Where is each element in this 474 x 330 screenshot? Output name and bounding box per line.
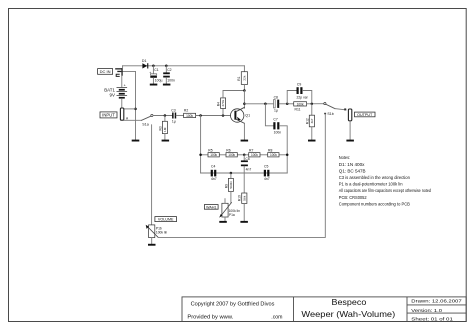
switch S1a — [142, 114, 153, 126]
node junction R1/R4 — [243, 89, 246, 92]
resistor R11 100k — [294, 102, 307, 112]
WAH label box — [204, 205, 218, 210]
svg-text:100k lin: 100k lin — [156, 231, 168, 235]
svg-text:PCB: CRS0052: PCB: CRS0052 — [339, 195, 367, 200]
node junction C1/rail — [152, 65, 155, 68]
wire C8 to R11 — [279, 103, 293, 105]
svg-text:Version: 1.0: Version: 1.0 — [411, 308, 442, 313]
svg-text:R6: R6 — [226, 148, 230, 152]
wire S1a to C3 — [153, 115, 172, 117]
svg-text:WAH1: WAH1 — [206, 205, 216, 209]
ground under output jack — [346, 140, 354, 142]
svg-text:.com: .com — [271, 315, 282, 321]
svg-text:R12: R12 — [305, 118, 309, 124]
wire top rail V+ — [123, 65, 245, 67]
capacitor C4 4n7 — [211, 165, 217, 181]
svg-text:R3: R3 — [158, 126, 162, 130]
ground under R12 — [308, 140, 316, 142]
wire volume wiper to S1b lower contact — [158, 114, 325, 237]
svg-text:DC IN: DC IN — [100, 69, 111, 74]
svg-text:D1: D1 — [142, 59, 147, 63]
capacitor C5 4n7 — [264, 165, 270, 181]
node junction row right — [286, 154, 289, 157]
svg-text:VOLUME: VOLUME — [158, 218, 174, 222]
ground under R10 — [240, 221, 248, 223]
node junction row left — [199, 154, 202, 157]
VOLUME label box — [155, 217, 177, 222]
resistor R1 vertical from rail — [237, 66, 247, 91]
svg-text:Weeper (Wah-Volume): Weeper (Wah-Volume) — [301, 310, 395, 319]
wire C3 to R2 — [176, 115, 183, 117]
node junction R12 top — [311, 103, 314, 106]
svg-text:Q1: BC 547B: Q1: BC 547B — [339, 169, 366, 174]
capacitor C9 22p bypass — [287, 83, 312, 104]
connector X3 OUTPUT label — [355, 112, 376, 117]
resistor R2 100k — [184, 109, 196, 118]
svg-text:Bespeco: Bespeco — [332, 298, 367, 307]
svg-text:R10: R10 — [238, 195, 242, 201]
wire R2 to base — [196, 115, 231, 117]
resistor R6 100k — [226, 148, 237, 157]
node junction R3 top — [164, 114, 167, 117]
svg-text:Q1: Q1 — [245, 114, 250, 118]
svg-text:4n7: 4n7 — [264, 177, 270, 181]
svg-text:P1a: P1a — [229, 213, 235, 217]
svg-text:470k: 470k — [221, 99, 225, 106]
capacitor C8 1u electrolytic — [274, 96, 280, 113]
ground under R3 — [162, 140, 170, 142]
svg-text:C1: C1 — [154, 68, 158, 72]
svg-text:R1: R1 — [237, 76, 241, 80]
node junction row middle — [243, 154, 246, 157]
wire input sleeve to ground line — [124, 108, 136, 110]
wire output jack to ground — [349, 121, 351, 140]
connector X1 INPUT label — [100, 112, 117, 118]
resistor R4 vertical — [217, 91, 245, 116]
switch S1b lower contact — [324, 113, 326, 115]
svg-text:C8: C8 — [274, 96, 278, 100]
svg-text:100k: 100k — [210, 153, 217, 157]
svg-text:R5: R5 — [208, 148, 212, 152]
svg-text:Sheet: 01 of 01: Sheet: 01 of 01 — [411, 316, 453, 321]
node junction collector — [243, 103, 246, 106]
wire collector node right — [244, 103, 273, 105]
resistor R10 vertical — [238, 193, 247, 221]
wire resistor row — [201, 154, 288, 156]
svg-text:C3: C3 — [171, 108, 175, 112]
svg-text:INPUT: INPUT — [102, 113, 115, 118]
connector X2 DC jack symbol — [115, 66, 123, 77]
node junction base branch down — [199, 114, 202, 117]
svg-text:100µ: 100µ — [155, 79, 163, 83]
svg-text:100n: 100n — [167, 79, 175, 83]
svg-text:C5: C5 — [264, 165, 268, 169]
svg-text:4n7: 4n7 — [246, 168, 252, 172]
svg-text:1M: 1M — [163, 127, 167, 132]
notes text — [339, 155, 432, 206]
svg-text:C7: C7 — [273, 118, 277, 122]
wire ground line down — [135, 109, 137, 140]
capacitor C6 4n7 vertical — [241, 155, 251, 193]
switch S1b — [324, 103, 346, 116]
wire collector vertical — [243, 91, 245, 109]
svg-text:4k7: 4k7 — [310, 118, 314, 123]
svg-text:22k: 22k — [243, 75, 247, 80]
svg-text:Drawn: 12.06.2007: Drawn: 12.06.2007 — [411, 298, 462, 303]
wire C7 branch left/down — [265, 104, 273, 126]
wire C7 right down to row — [279, 126, 287, 173]
svg-text:C2: C2 — [167, 68, 171, 72]
ground under volume pot — [148, 244, 156, 246]
svg-text:1µ: 1µ — [274, 109, 278, 113]
node junction R9 top — [230, 172, 233, 175]
svg-text:Provided by www.: Provided by www. — [187, 315, 233, 321]
connector X2 DC IN label — [98, 69, 113, 75]
wire base branch down to row — [200, 116, 202, 174]
svg-text:All capacitors are film-capaci: All capacitors are film-capacitors excep… — [339, 188, 432, 193]
node junction C9 left / C8 — [286, 103, 289, 106]
svg-text:C3 is assembled in the wrong d: C3 is assembled in the wrong direction — [339, 175, 411, 180]
svg-text:+: + — [124, 83, 126, 87]
ground under Q1 emitter — [241, 140, 249, 142]
resistor R12 vertical — [305, 104, 314, 140]
potentiometer WAH1 P1a — [219, 199, 240, 221]
ground under C2 — [163, 84, 171, 86]
svg-text:S1b: S1b — [327, 112, 333, 116]
svg-text:OUTPUT: OUTPUT — [357, 113, 373, 117]
svg-text:R11: R11 — [295, 107, 301, 111]
svg-text:100k: 100k — [270, 153, 277, 157]
ground under left rail — [132, 140, 140, 142]
svg-text:R2: R2 — [184, 109, 188, 113]
svg-text:9V: 9V — [110, 93, 115, 98]
wire node A from input tip — [124, 119, 142, 121]
svg-text:P1 is a dual-potentiometer 100: P1 is a dual-potentiometer 100k lin — [339, 182, 403, 187]
svg-text:R8: R8 — [268, 148, 272, 152]
battery BAT1 9V — [104, 76, 126, 108]
wire bottom rail — [201, 172, 288, 174]
connector X1 input jack — [120, 108, 123, 120]
resistor R5 100k — [208, 148, 219, 157]
svg-text:560R: 560R — [229, 180, 233, 188]
svg-text:Component numbers according to: Component numbers according to PCB — [339, 201, 410, 206]
svg-text:1µ: 1µ — [172, 120, 176, 124]
potentiometer VOLUME P1b — [146, 225, 168, 244]
svg-text:56k: 56k — [242, 195, 246, 200]
ground under C1 — [150, 84, 158, 86]
svg-text:100k: 100k — [186, 114, 193, 118]
capacitor C3 1u — [171, 108, 176, 123]
svg-text:22p var: 22p var — [297, 95, 309, 99]
capacitor C2 100n — [163, 66, 175, 84]
transistor Q1 BC547B — [231, 107, 251, 139]
node junction C7 branch — [264, 103, 267, 106]
svg-text:C4: C4 — [211, 165, 215, 169]
node junction R4 bottom — [222, 114, 225, 117]
svg-text:Copyright 2007 by Gottfried Di: Copyright 2007 by Gottfried Divos — [191, 302, 275, 308]
svg-text:4n7: 4n7 — [211, 177, 217, 181]
svg-text:100n: 100n — [274, 131, 282, 135]
node junction ground line / input sleeve — [134, 108, 137, 111]
capacitor C1 100u electrolytic — [149, 66, 162, 84]
ground under WAH1 — [219, 221, 227, 223]
resistor R9 vertical — [224, 173, 233, 203]
svg-text:S1a: S1a — [142, 122, 148, 126]
svg-text:100k: 100k — [228, 153, 235, 157]
resistor R7 100k — [249, 148, 260, 157]
title block — [182, 297, 466, 322]
diode D1 — [142, 59, 148, 68]
wire R11 to switch — [307, 103, 324, 105]
wire S1a lower contact to volume pot — [151, 125, 153, 225]
capacitor C7 100n — [273, 118, 281, 135]
svg-text:D1: 1N 400x: D1: 1N 400x — [339, 162, 366, 167]
connector X3 OUTPUT jack — [348, 109, 351, 121]
svg-text:100k: 100k — [251, 153, 258, 157]
svg-text:100k: 100k — [297, 102, 304, 106]
svg-text:R9: R9 — [224, 184, 228, 188]
resistor R3 1M vertical — [158, 116, 167, 140]
svg-text:R7: R7 — [249, 148, 253, 152]
resistor R8 100k — [268, 148, 279, 157]
wire DC jack pin2 to ground line — [123, 71, 136, 109]
svg-text:R4: R4 — [217, 102, 221, 106]
node junction C2/rail — [165, 65, 168, 68]
svg-text:Notes:: Notes: — [339, 155, 350, 160]
svg-text:C9: C9 — [297, 83, 301, 87]
